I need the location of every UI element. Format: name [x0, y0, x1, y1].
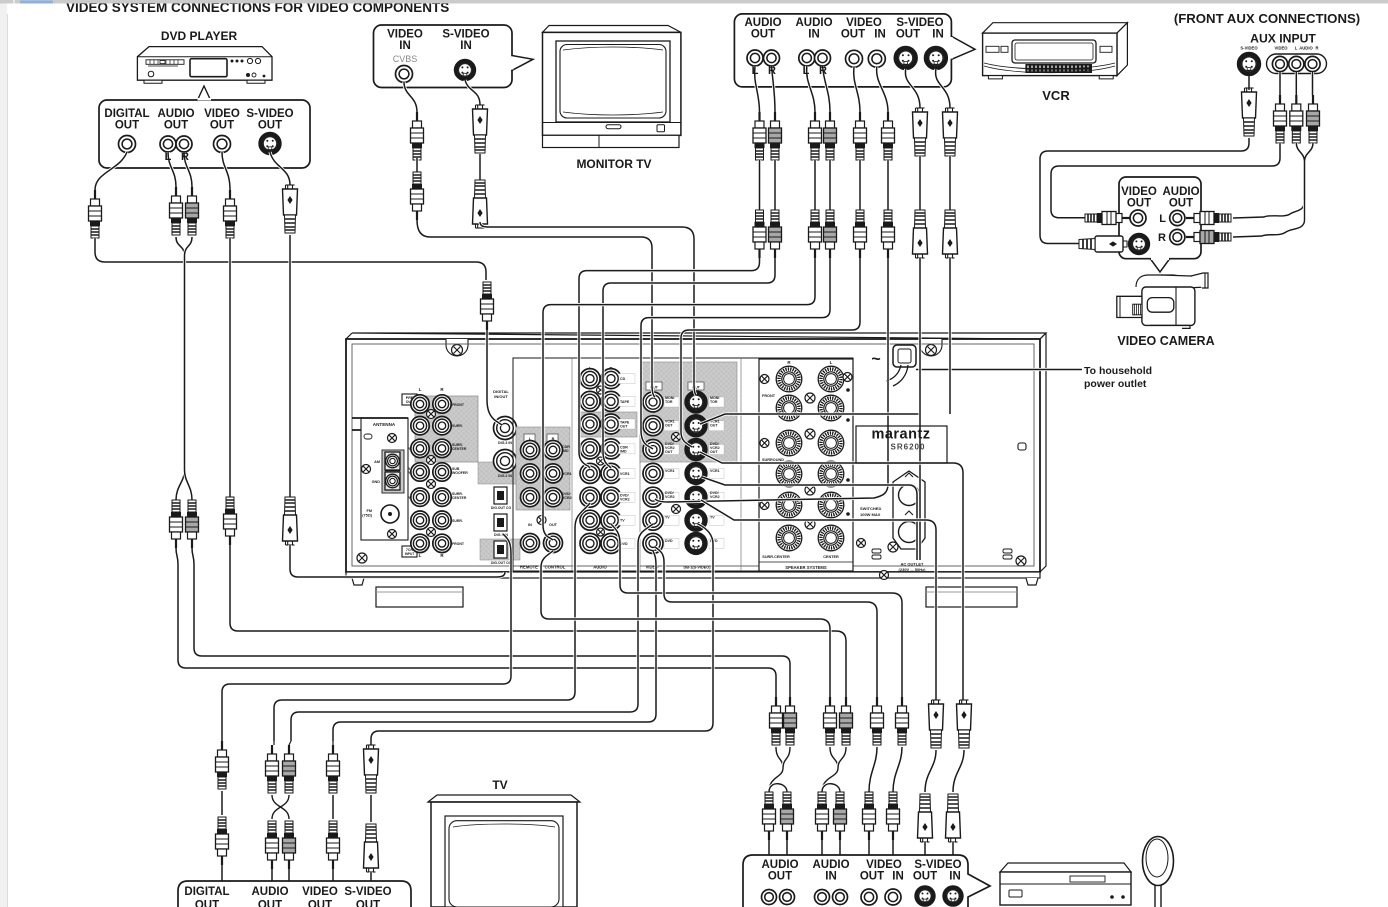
svg-text:S-VIDEO: S-VIDEO: [246, 108, 293, 120]
svg-text:S-VIDEO: S-VIDEO: [1240, 46, 1258, 51]
svg-text:OUT: OUT: [258, 900, 282, 907]
svg-text:DIG.3 IN: DIG.3 IN: [498, 441, 512, 445]
svg-text:VIDEO: VIDEO: [1274, 46, 1288, 51]
svg-text:(FRONT AUX CONNECTIONS): (FRONT AUX CONNECTIONS): [1174, 11, 1360, 26]
svg-text:AUX INPUT: AUX INPUT: [1250, 32, 1316, 46]
svg-text:SR6200: SR6200: [891, 443, 926, 452]
svg-text:AUDIO: AUDIO: [761, 859, 798, 871]
svg-text:FRONT: FRONT: [452, 542, 465, 546]
svg-text:VCR2: VCR2: [562, 496, 572, 500]
svg-text:IN: IN: [808, 29, 820, 41]
svg-text:IN: IN: [949, 871, 961, 883]
svg-text:VCR2: VCR2: [710, 495, 720, 499]
svg-text:OUT: OUT: [1127, 198, 1151, 210]
svg-text:L: L: [419, 387, 422, 392]
svg-text:CVBS: CVBS: [393, 54, 418, 64]
svg-text:OUT: OUT: [210, 120, 234, 132]
svg-text:DIGITAL: DIGITAL: [104, 108, 149, 120]
svg-text:OUT: OUT: [768, 871, 792, 883]
svg-text:OUT: OUT: [620, 425, 628, 429]
svg-text:L: L: [1295, 46, 1298, 51]
svg-text:100W MAX: 100W MAX: [860, 512, 881, 517]
svg-text:(230V ... 50Hz): (230V ... 50Hz): [899, 567, 927, 572]
svg-text:AM: AM: [374, 460, 380, 464]
svg-text:DVD PLAYER: DVD PLAYER: [161, 29, 238, 43]
svg-text:R: R: [768, 65, 776, 77]
svg-text:DIG.OUT OP: DIG.OUT OP: [491, 561, 512, 565]
svg-text:VCR2: VCR2: [665, 495, 675, 499]
svg-text:DIG.OUT CO: DIG.OUT CO: [491, 506, 512, 510]
svg-text:INPUT: INPUT: [405, 552, 415, 556]
svg-text:DB-1(S-VIDEO): DB-1(S-VIDEO): [683, 566, 711, 570]
svg-text:L: L: [830, 360, 833, 365]
svg-text:R: R: [819, 65, 827, 77]
svg-text:CONTROL: CONTROL: [545, 565, 566, 570]
svg-text:IN: IN: [892, 871, 904, 883]
svg-text:OUT: OUT: [308, 900, 332, 907]
svg-text:OUT: OUT: [195, 900, 219, 907]
svg-text:L: L: [752, 65, 759, 77]
svg-text:CENTER: CENTER: [452, 496, 467, 500]
svg-text:OUT: OUT: [665, 450, 673, 454]
svg-text:VIDEO: VIDEO: [1121, 186, 1157, 198]
svg-text:OUT: OUT: [115, 120, 139, 132]
svg-text:IN/OUT: IN/OUT: [494, 394, 508, 399]
svg-text:marantz: marantz: [871, 427, 930, 443]
svg-text:VIDEO: VIDEO: [302, 886, 338, 898]
svg-text:S-VIDEO: S-VIDEO: [442, 29, 489, 41]
svg-text:OUT: OUT: [356, 900, 380, 907]
svg-text:OUT: OUT: [258, 120, 282, 132]
svg-text:AUDIO: AUDIO: [1162, 186, 1199, 198]
svg-text:OUT: OUT: [1169, 198, 1193, 210]
svg-text:OUT: OUT: [751, 29, 775, 41]
svg-text:OUT: OUT: [896, 29, 920, 41]
svg-text:AUDIO: AUDIO: [157, 108, 194, 120]
svg-text:TV: TV: [710, 516, 715, 520]
svg-text:IN: IN: [825, 871, 837, 883]
svg-text:TV: TV: [665, 516, 670, 520]
svg-text:FM: FM: [367, 509, 372, 513]
svg-text:OUT: OUT: [860, 871, 884, 883]
svg-text:SURR.: SURR.: [452, 424, 463, 428]
svg-text:To household: To household: [1084, 365, 1152, 377]
svg-text:DIG.2 IN: DIG.2 IN: [498, 474, 512, 478]
svg-text:DVD: DVD: [665, 539, 673, 543]
svg-text:S-VIDEO: S-VIDEO: [896, 17, 943, 29]
svg-text:/MD: /MD: [620, 449, 627, 453]
svg-text:AUDIO: AUDIO: [593, 565, 607, 570]
svg-text:AUDIO: AUDIO: [1299, 46, 1313, 51]
svg-text:L: L: [419, 553, 422, 558]
svg-text:VIDEO: VIDEO: [204, 108, 240, 120]
svg-text:L: L: [1159, 213, 1166, 225]
svg-text:WOOFER: WOOFER: [452, 471, 468, 475]
svg-text:SPEAKER SYSTEMS: SPEAKER SYSTEMS: [785, 565, 827, 570]
svg-text:AC OUTLET: AC OUTLET: [901, 562, 924, 567]
svg-text:VCR2: VCR2: [620, 498, 630, 502]
svg-text:OUT: OUT: [665, 424, 673, 428]
svg-text:IN: IN: [528, 523, 532, 527]
svg-text:OUT: OUT: [710, 450, 718, 454]
svg-text:AUDIO: AUDIO: [795, 17, 832, 29]
svg-text:VIDEO: VIDEO: [866, 859, 902, 871]
svg-text:VCR: VCR: [1042, 88, 1070, 103]
svg-text:AUDIO: AUDIO: [251, 886, 288, 898]
svg-text:OUT: OUT: [841, 29, 865, 41]
svg-text:IN: IN: [874, 29, 886, 41]
svg-text:R: R: [1158, 232, 1166, 244]
svg-text:power outlet: power outlet: [1084, 378, 1147, 390]
svg-text:FRONT: FRONT: [452, 403, 465, 407]
svg-text:TOR: TOR: [665, 400, 673, 404]
svg-text:S-VIDEO: S-VIDEO: [914, 859, 961, 871]
svg-text:CENTER: CENTER: [452, 447, 467, 451]
svg-text:DIGITAL: DIGITAL: [184, 886, 229, 898]
svg-text:L: L: [803, 65, 810, 77]
svg-text:REMOTE: REMOTE: [520, 565, 538, 570]
svg-text:VCR1: VCR1: [562, 472, 572, 476]
svg-text:CENTER: CENTER: [823, 555, 839, 559]
svg-text:(75Ω): (75Ω): [362, 514, 373, 518]
svg-text:OUT: OUT: [913, 871, 937, 883]
svg-text:VCR1: VCR1: [620, 472, 630, 476]
svg-text:IN: IN: [399, 40, 411, 52]
svg-text:VCR1: VCR1: [665, 469, 675, 473]
svg-text:OUT: OUT: [710, 424, 718, 428]
svg-text:ANTENNA: ANTENNA: [373, 422, 396, 427]
svg-text:AUDIO: AUDIO: [812, 859, 849, 871]
svg-text:GND: GND: [372, 480, 381, 484]
svg-text:IN: IN: [460, 40, 472, 52]
svg-text:/MD: /MD: [562, 449, 569, 453]
svg-text:R: R: [1315, 46, 1318, 51]
svg-text:FRONT: FRONT: [762, 394, 776, 398]
svg-text:VIDEO CAMERA: VIDEO CAMERA: [1117, 334, 1214, 348]
svg-text:CD: CD: [620, 377, 626, 381]
svg-text:SURR.CENTER: SURR.CENTER: [762, 555, 790, 559]
svg-text:L: L: [165, 151, 172, 163]
svg-text:IN: IN: [932, 29, 944, 41]
svg-text:R: R: [181, 151, 189, 163]
svg-text:VIDEO: VIDEO: [846, 17, 882, 29]
svg-text:VCR1: VCR1: [710, 469, 720, 473]
svg-text:TAPE: TAPE: [620, 400, 630, 404]
svg-text:SWITCHED: SWITCHED: [860, 506, 881, 511]
svg-text:OUT: OUT: [549, 523, 558, 527]
svg-text:~: ~: [871, 351, 880, 368]
svg-text:OUT: OUT: [164, 120, 188, 132]
svg-text:VIDEO: VIDEO: [387, 29, 423, 41]
svg-text:TV: TV: [620, 519, 625, 523]
svg-text:AUDIO: AUDIO: [744, 17, 781, 29]
svg-text:TV: TV: [492, 778, 507, 792]
svg-text:SURR.: SURR.: [452, 519, 463, 523]
svg-text:TOR: TOR: [710, 400, 718, 404]
svg-text:MONITOR TV: MONITOR TV: [576, 157, 651, 171]
svg-text:S-VIDEO: S-VIDEO: [344, 886, 391, 898]
